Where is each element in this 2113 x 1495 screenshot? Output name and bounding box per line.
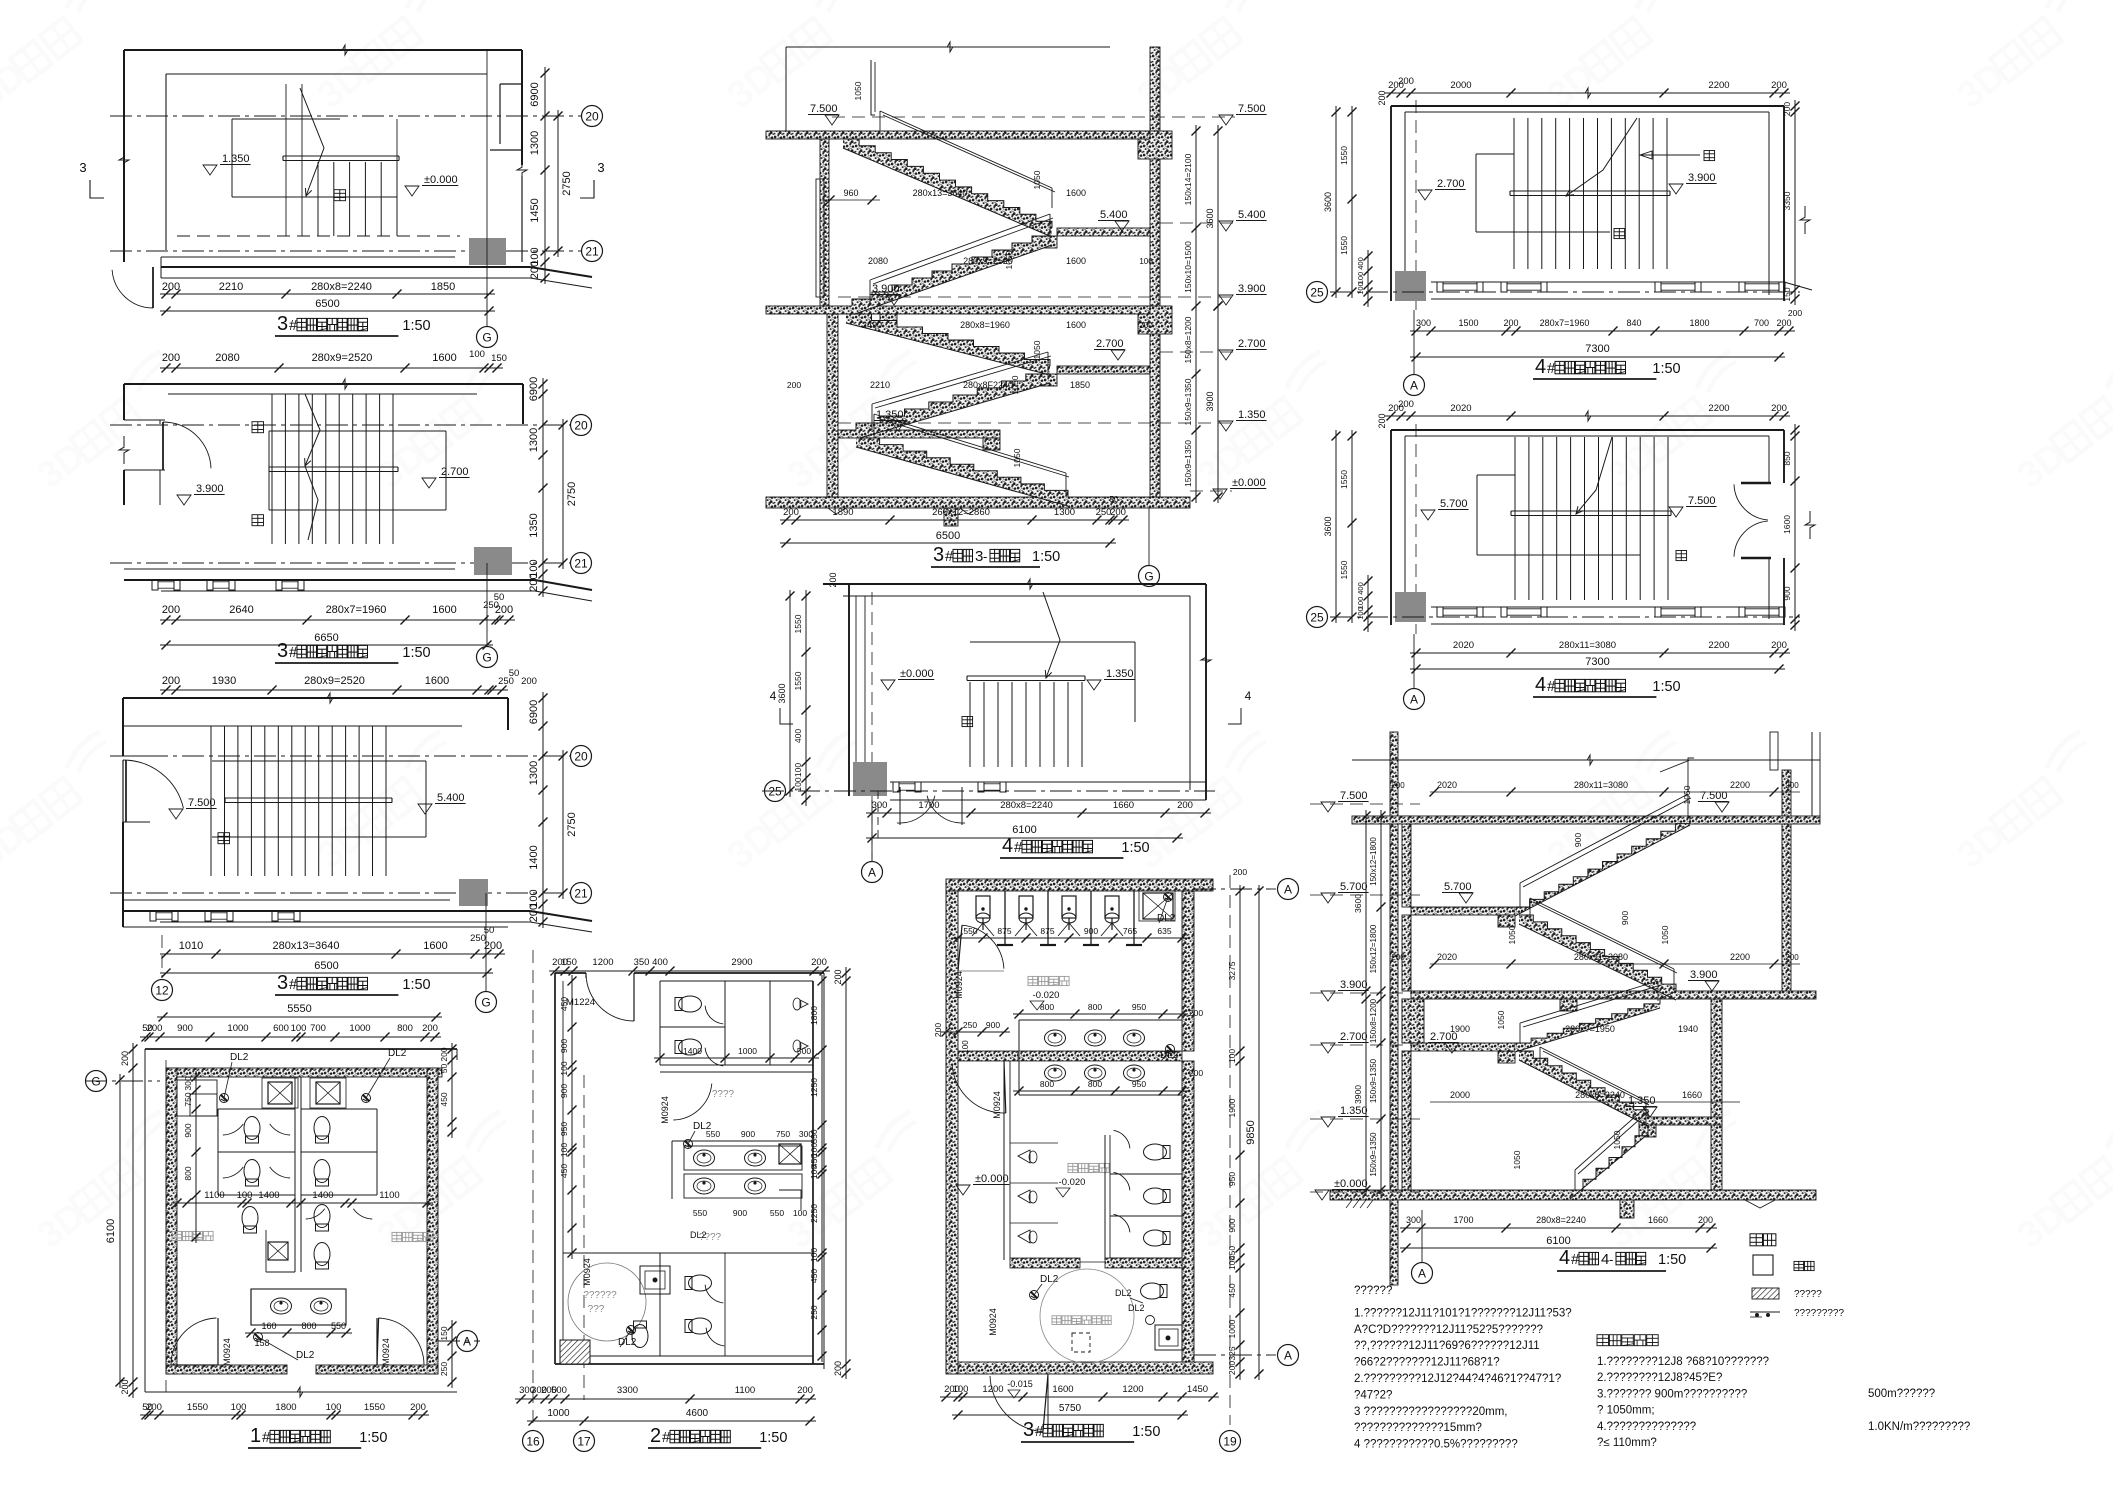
dim row bottom H — [940, 1384, 1219, 1420]
column block — [469, 238, 506, 265]
svg-text:100: 100 — [559, 1061, 569, 1075]
rail m2 F — [872, 352, 1051, 430]
svg-text:200: 200 — [1227, 1361, 1237, 1375]
svg-text:150x9=1350: 150x9=1350 — [1183, 378, 1193, 425]
left chain J — [1323, 430, 1373, 632]
wall outline B — [119, 379, 523, 505]
svg-text:875: 875 — [1040, 926, 1054, 936]
rail low F — [874, 414, 1069, 497]
bottom corridor C — [123, 900, 592, 932]
svg-text:1660: 1660 — [1682, 1090, 1702, 1100]
stall walls right D — [301, 1109, 377, 1195]
svg-text:3: 3 — [277, 313, 288, 335]
legend title — [1750, 1234, 1776, 1246]
outer walls J — [1391, 430, 1784, 625]
svg-text:1000: 1000 — [349, 1023, 370, 1034]
svg-text:1000: 1000 — [738, 1046, 757, 1056]
svg-text:5.400: 5.400 — [1100, 209, 1128, 221]
svg-text:200: 200 — [162, 675, 180, 687]
svg-text:DL2: DL2 — [230, 1052, 249, 1063]
ground slab F — [766, 497, 1190, 526]
svg-text:280x7=1960: 280x7=1960 — [326, 604, 387, 616]
svg-text:1600: 1600 — [1052, 1384, 1073, 1395]
svg-text:3.900: 3.900 — [872, 283, 900, 295]
svg-text:200: 200 — [1782, 102, 1792, 116]
svg-text:280x9=2520: 280x9=2520 — [304, 675, 365, 687]
center wall D — [295, 1077, 301, 1272]
svg-text:350: 350 — [634, 957, 650, 968]
svg-text:100: 100 — [237, 1190, 253, 1201]
svg-text:1800: 1800 — [809, 1006, 819, 1025]
stall doors D — [223, 1124, 372, 1219]
stairwell boundary B — [269, 431, 446, 510]
svg-text:2200: 2200 — [1730, 780, 1750, 790]
svg-text::: : — [1645, 1334, 1648, 1348]
grid bubble A-J — [1404, 634, 1425, 710]
svg-text:200: 200 — [162, 604, 180, 616]
svg-text:3600: 3600 — [1323, 192, 1333, 212]
level lines K — [1310, 804, 1420, 1192]
svg-text:1.350: 1.350 — [1238, 409, 1266, 421]
svg-text:200: 200 — [1377, 90, 1387, 105]
svg-text:1350: 1350 — [528, 513, 540, 537]
svg-text:6650: 6650 — [314, 632, 338, 644]
svg-text:200: 200 — [422, 1023, 438, 1034]
dim row top D — [140, 1023, 441, 1042]
svg-text:16: 16 — [526, 1434, 540, 1448]
right wall beam blocks F — [1138, 131, 1172, 334]
flight low F — [856, 438, 1068, 506]
svg-text:200: 200 — [1788, 308, 1802, 318]
legend steel column — [1753, 1255, 1814, 1275]
lower area E — [563, 1230, 813, 1356]
svg-text:200: 200 — [833, 969, 843, 984]
svg-text:5.700: 5.700 — [1340, 881, 1368, 893]
svg-text:1:50: 1:50 — [359, 1430, 387, 1446]
svg-text:500m??????: 500m?????? — [1868, 1388, 1935, 1400]
lower sink counter H — [1013, 1045, 1203, 1096]
svg-text:DL2: DL2 — [1157, 913, 1176, 924]
svg-text:200: 200 — [1110, 507, 1126, 518]
svg-text:21: 21 — [574, 556, 588, 570]
svg-text:1:50: 1:50 — [1032, 549, 1060, 565]
svg-text:200: 200 — [1785, 953, 1799, 962]
svg-text:5.700: 5.700 — [1440, 498, 1468, 510]
corridor windows C — [150, 911, 300, 921]
sink counter D — [251, 1289, 346, 1325]
title A — [275, 313, 431, 336]
svg-text:900: 900 — [986, 1020, 1000, 1030]
levels mid F — [1094, 209, 1129, 360]
svg-text:3: 3 — [79, 160, 86, 175]
svg-text:750: 750 — [183, 1092, 193, 1106]
svg-text:280x7=1960: 280x7=1960 — [1540, 318, 1590, 328]
axis vert dashed J — [1415, 424, 1417, 634]
svg-text:2.700: 2.700 — [441, 466, 469, 478]
svg-text:?????????: ????????? — [1794, 1308, 1844, 1319]
room label men D — [172, 1231, 213, 1240]
level +/-0.000 — [405, 174, 458, 196]
svg-text:100: 100 — [961, 1040, 970, 1054]
svg-text:M0924: M0924 — [988, 1308, 998, 1336]
svg-text:2020: 2020 — [1437, 780, 1457, 790]
inner dims F3 — [862, 320, 1153, 359]
level 5.700 J — [1421, 498, 1469, 520]
svg-text:800: 800 — [1040, 1079, 1054, 1089]
svg-text:280x11=3080: 280x11=3080 — [1559, 640, 1616, 651]
svg-text:1:50: 1:50 — [1652, 361, 1680, 377]
right dim chain D — [439, 1043, 457, 1138]
svg-text:100: 100 — [291, 1023, 307, 1034]
dim row1 J — [1410, 640, 1790, 658]
svg-text:1550: 1550 — [1339, 470, 1349, 489]
svg-text:200: 200 — [933, 1023, 943, 1037]
svg-text:DL2: DL2 — [690, 1230, 707, 1240]
svg-text:3: 3 — [277, 640, 288, 662]
svg-text:1.350: 1.350 — [222, 153, 250, 165]
entry doors G — [878, 787, 965, 840]
svg-text:6900: 6900 — [528, 377, 540, 401]
svg-text:3.900: 3.900 — [1238, 283, 1266, 295]
left dim chain G — [777, 590, 811, 806]
svg-text:3275: 3275 — [1227, 961, 1237, 980]
slab 3.900 F — [766, 306, 1150, 326]
svg-text:6500: 6500 — [315, 298, 339, 310]
svg-text:1050: 1050 — [1682, 785, 1692, 804]
svg-text:400: 400 — [1356, 257, 1365, 270]
svg-text:21: 21 — [574, 886, 588, 900]
svg-text:3350: 3350 — [1782, 191, 1792, 210]
sink counters E — [672, 1121, 813, 1218]
svg-text:200: 200 — [833, 1361, 843, 1376]
svg-text:5.400: 5.400 — [437, 792, 465, 804]
svg-text:100: 100 — [559, 1143, 569, 1157]
svg-text:100: 100 — [1227, 1049, 1237, 1063]
slab 1.350 F — [838, 430, 1000, 450]
slab 5.400 F — [1040, 228, 1150, 248]
niche top-right — [490, 84, 522, 150]
svg-text:3: 3 — [277, 972, 288, 994]
svg-text:280x13=3640: 280x13=3640 — [273, 940, 340, 952]
rail t1 K — [1520, 758, 1694, 907]
svg-text:1550: 1550 — [1339, 560, 1349, 579]
axis 20 dashed B — [110, 424, 570, 426]
svg-text:1000: 1000 — [547, 1408, 570, 1419]
stair handrail B — [269, 467, 398, 472]
svg-text:3 ?????????????????20mm,: 3 ?????????????????20mm, — [1354, 1406, 1507, 1418]
svg-text:100: 100 — [793, 763, 803, 777]
mid label M0924 — [660, 1084, 712, 1124]
levels left F — [808, 103, 905, 431]
svg-text:1450: 1450 — [529, 198, 541, 222]
title B — [275, 640, 431, 663]
dim total 5550 — [157, 1003, 442, 1022]
svg-text:200: 200 — [162, 281, 180, 293]
svg-text:??????????????15mm?: ??????????????15mm? — [1354, 1422, 1482, 1434]
left wall inner H — [1004, 1061, 1010, 1260]
svg-text:5550: 5550 — [287, 1003, 311, 1015]
svg-text:150: 150 — [561, 957, 577, 968]
axis 20 dashed C — [110, 755, 570, 757]
dim row2 G — [866, 824, 1183, 843]
svg-text:2250: 2250 — [809, 1204, 819, 1223]
svg-text:DL2: DL2 — [1040, 1274, 1059, 1285]
svg-text:1600: 1600 — [1066, 256, 1086, 266]
svg-text:200: 200 — [146, 1402, 162, 1413]
svg-text:600: 600 — [273, 1023, 289, 1034]
svg-text:1:50: 1:50 — [402, 645, 430, 661]
svg-text:280x8=2240: 280x8=2240 — [1575, 1090, 1625, 1100]
svg-text:635: 635 — [1157, 926, 1171, 936]
svg-text:100: 100 — [809, 1165, 819, 1179]
svg-text:450: 450 — [559, 1164, 569, 1178]
svg-text:2000: 2000 — [1450, 1090, 1470, 1100]
svg-text:280x11=3080: 280x11=3080 — [1574, 952, 1628, 962]
door M0924 upper H — [954, 925, 1004, 999]
left wall mid B — [124, 470, 165, 505]
svg-text:±0.000: ±0.000 — [424, 174, 458, 186]
grid bubble 21 C — [571, 883, 592, 904]
flight up2 F — [852, 236, 1052, 315]
svg-text:500: 500 — [551, 1385, 567, 1396]
svg-text:300: 300 — [1406, 1215, 1421, 1225]
svg-text:900: 900 — [559, 1039, 569, 1053]
dim rows bottom B — [160, 592, 515, 650]
svg-text:150x14=2100: 150x14=2100 — [1183, 153, 1193, 205]
svg-text:2200: 2200 — [1708, 403, 1729, 414]
svg-text:800: 800 — [183, 1166, 193, 1180]
svg-text:200: 200 — [410, 1402, 426, 1413]
svg-text:1700: 1700 — [918, 800, 939, 811]
svg-text:A: A — [1410, 378, 1418, 392]
level 2.700 I — [1418, 178, 1466, 200]
svg-text:900: 900 — [741, 1129, 755, 1139]
svg-text:1200: 1200 — [592, 957, 613, 968]
flight up1 F — [843, 139, 1052, 237]
level -0.015 H — [1007, 1379, 1033, 1398]
flight m2 K — [1519, 1051, 1648, 1126]
svg-text:1600: 1600 — [425, 675, 449, 687]
svg-text:G: G — [1144, 569, 1153, 583]
label xia J — [1676, 551, 1687, 561]
svg-text:1550: 1550 — [187, 1402, 208, 1413]
dim row2 J — [1410, 656, 1785, 674]
svg-text:1100: 1100 — [204, 1190, 224, 1201]
svg-text:765: 765 — [1123, 926, 1137, 936]
svg-text:?66?2???????12J11?68?1?: ?66?2???????12J11?68?1? — [1354, 1357, 1500, 1369]
level 3.900 B — [177, 483, 225, 505]
grid bubble G-F — [1139, 508, 1160, 587]
svg-text:800: 800 — [301, 1321, 316, 1331]
svg-text:400: 400 — [1356, 582, 1365, 595]
top border line F — [786, 42, 1110, 131]
svg-text:7.500: 7.500 — [810, 103, 838, 115]
svg-text:±0.000: ±0.000 — [975, 1173, 1009, 1185]
svg-text:800: 800 — [397, 1023, 413, 1034]
svg-text:750: 750 — [776, 1129, 790, 1139]
mid wall H — [958, 1051, 1182, 1061]
svg-text:1660: 1660 — [1648, 1215, 1668, 1225]
stair handrail J — [1511, 511, 1671, 516]
notes left column — [1354, 1285, 1572, 1451]
ground hatch K — [1346, 1200, 1373, 1208]
svg-text:200: 200 — [1189, 1008, 1203, 1018]
parapet K — [1660, 760, 1690, 772]
svg-text:800: 800 — [1088, 1079, 1102, 1089]
svg-text:250: 250 — [439, 1362, 449, 1376]
label shang I — [1704, 151, 1715, 161]
svg-text:950: 950 — [1227, 1172, 1237, 1186]
inner dims K3 — [1450, 1010, 1698, 1034]
svg-text:M1224: M1224 — [566, 997, 595, 1008]
svg-text:M0924: M0924 — [954, 971, 964, 999]
svg-text:4: 4 — [1245, 689, 1252, 703]
right chain J — [1782, 424, 1815, 631]
svg-text:2: 2 — [650, 1425, 661, 1447]
inner dims F1 — [822, 81, 1086, 204]
svg-text:280x8F2240: 280x8F2240 — [963, 380, 1013, 390]
left door C — [123, 756, 183, 822]
svg-text:875: 875 — [997, 926, 1011, 936]
svg-text:1:50: 1:50 — [1652, 679, 1680, 695]
svg-text:1050: 1050 — [1496, 1010, 1506, 1029]
small corner rooms D — [177, 1080, 217, 1116]
inner dims K4 — [1430, 1090, 1740, 1169]
svg-text:1800: 1800 — [275, 1402, 296, 1413]
svg-text:9850: 9850 — [1245, 1120, 1257, 1144]
svg-text:1400: 1400 — [258, 1190, 279, 1201]
svg-text:1.350: 1.350 — [1106, 668, 1134, 680]
svg-text:2.700: 2.700 — [1437, 178, 1465, 190]
rail b1 K — [1540, 1047, 1649, 1190]
svg-text:200: 200 — [1377, 413, 1387, 428]
counter dims D — [245, 1321, 352, 1361]
mop sinks top D — [262, 1078, 346, 1108]
right wall K upper — [1770, 732, 1791, 999]
svg-text:?????: ????? — [1794, 1289, 1822, 1300]
svg-text:1400: 1400 — [683, 1046, 702, 1056]
svg-text:150: 150 — [439, 1326, 449, 1340]
section marker 4 G — [770, 646, 1252, 724]
bottom corridor wall — [161, 257, 592, 288]
svg-text:6500: 6500 — [314, 960, 338, 972]
svg-text:960: 960 — [843, 188, 858, 198]
stair treads I — [1514, 118, 1667, 269]
axis A right D — [438, 1320, 480, 1388]
svg-text:150: 150 — [1782, 287, 1792, 301]
svg-text:100: 100 — [1227, 1256, 1237, 1270]
grid bubble A-I — [1404, 310, 1425, 396]
svg-text:3600: 3600 — [1323, 516, 1333, 536]
svg-text:M0924: M0924 — [381, 1338, 391, 1366]
svg-text:A?C?D???????12J11?52?5???????: A?C?D???????12J11?52?5??????? — [1354, 1324, 1543, 1336]
grid bubble G-C — [476, 893, 497, 1013]
mid text qm E — [712, 1089, 735, 1100]
svg-text:2640: 2640 — [229, 604, 253, 616]
svg-text:200: 200 — [528, 904, 540, 922]
dim row top B — [160, 349, 507, 373]
levels inner K — [1428, 790, 1729, 1117]
svg-text:280x9=2520: 280x9=2520 — [312, 352, 373, 364]
svg-text:550: 550 — [809, 1129, 819, 1143]
right dim chain H — [1227, 867, 1264, 1380]
column block I — [1395, 271, 1426, 301]
level 7.500 C — [169, 797, 217, 819]
svg-text:280x?=1950: 280x?=1950 — [1565, 1024, 1615, 1034]
svg-text:200: 200 — [1391, 953, 1405, 962]
svg-text:200: 200 — [439, 1047, 449, 1061]
left outer wall K — [1390, 732, 1398, 1285]
right dim chain E — [809, 967, 851, 1379]
svg-text:200: 200 — [1233, 867, 1247, 877]
label shang B — [252, 422, 264, 433]
stair treads B — [272, 394, 393, 544]
left wall K upper — [1402, 816, 1411, 991]
right wall F — [1150, 47, 1160, 497]
entry door — [112, 267, 153, 308]
svg-text:2020: 2020 — [1437, 952, 1457, 962]
svg-text:150x8=1200: 150x8=1200 — [1183, 316, 1193, 363]
levels right F — [1213, 103, 1267, 499]
svg-text:150x10=1500: 150x10=1500 — [1183, 241, 1193, 293]
svg-text:900: 900 — [1782, 586, 1792, 600]
svg-text:1100: 1100 — [735, 1385, 755, 1396]
outer walls H — [946, 879, 1213, 1374]
axis line vert left D — [165, 1060, 167, 1392]
title K — [1557, 1247, 1686, 1271]
svg-text:1: 1 — [250, 1425, 261, 1447]
svg-text:280x8=2240: 280x8=2240 — [1536, 1215, 1586, 1225]
svg-text:550: 550 — [963, 926, 977, 936]
svg-text:25: 25 — [1310, 285, 1324, 299]
wc fixtures D — [244, 1117, 330, 1270]
corridor G — [890, 782, 1206, 800]
svg-text:1700: 1700 — [1453, 1215, 1473, 1225]
svg-text:280x8=2240: 280x8=2240 — [311, 281, 372, 293]
svg-text:3: 3 — [597, 160, 604, 175]
svg-text:M0924: M0924 — [222, 1338, 232, 1366]
svg-text:12: 12 — [155, 983, 169, 997]
svg-text:200: 200 — [120, 1379, 130, 1394]
svg-text:150: 150 — [491, 353, 507, 364]
svg-text:800: 800 — [1088, 1002, 1102, 1012]
svg-text:280x11=3080: 280x11=3080 — [1574, 780, 1628, 790]
svg-text:1930: 1930 — [212, 675, 236, 687]
svg-text:2020: 2020 — [1453, 640, 1474, 651]
svg-text:1050: 1050 — [1004, 250, 1014, 269]
stair arrows B — [305, 394, 320, 540]
svg-text:1500: 1500 — [1458, 318, 1478, 328]
dim row bottom K — [1400, 1215, 1717, 1233]
dim row bottom D — [140, 1402, 429, 1420]
grid bubble G-B — [477, 563, 498, 668]
svg-text:-0.015: -0.015 — [1007, 1379, 1033, 1389]
axis 25 I — [1307, 282, 1801, 303]
svg-text:100: 100 — [469, 349, 485, 360]
svg-text:A: A — [868, 865, 876, 879]
svg-text:M0924: M0924 — [582, 1258, 592, 1286]
svg-text:500: 500 — [797, 1046, 811, 1056]
dim row top I — [1377, 76, 1790, 106]
svg-text:1450: 1450 — [1187, 1384, 1208, 1395]
svg-text:6900: 6900 — [529, 82, 541, 106]
svg-text:2.700: 2.700 — [1096, 338, 1124, 350]
svg-text:200: 200 — [162, 352, 180, 364]
dim row top E — [549, 957, 830, 1008]
svg-text:1600: 1600 — [1066, 188, 1086, 198]
title I — [1533, 356, 1681, 379]
svg-text:200: 200 — [1771, 80, 1787, 91]
